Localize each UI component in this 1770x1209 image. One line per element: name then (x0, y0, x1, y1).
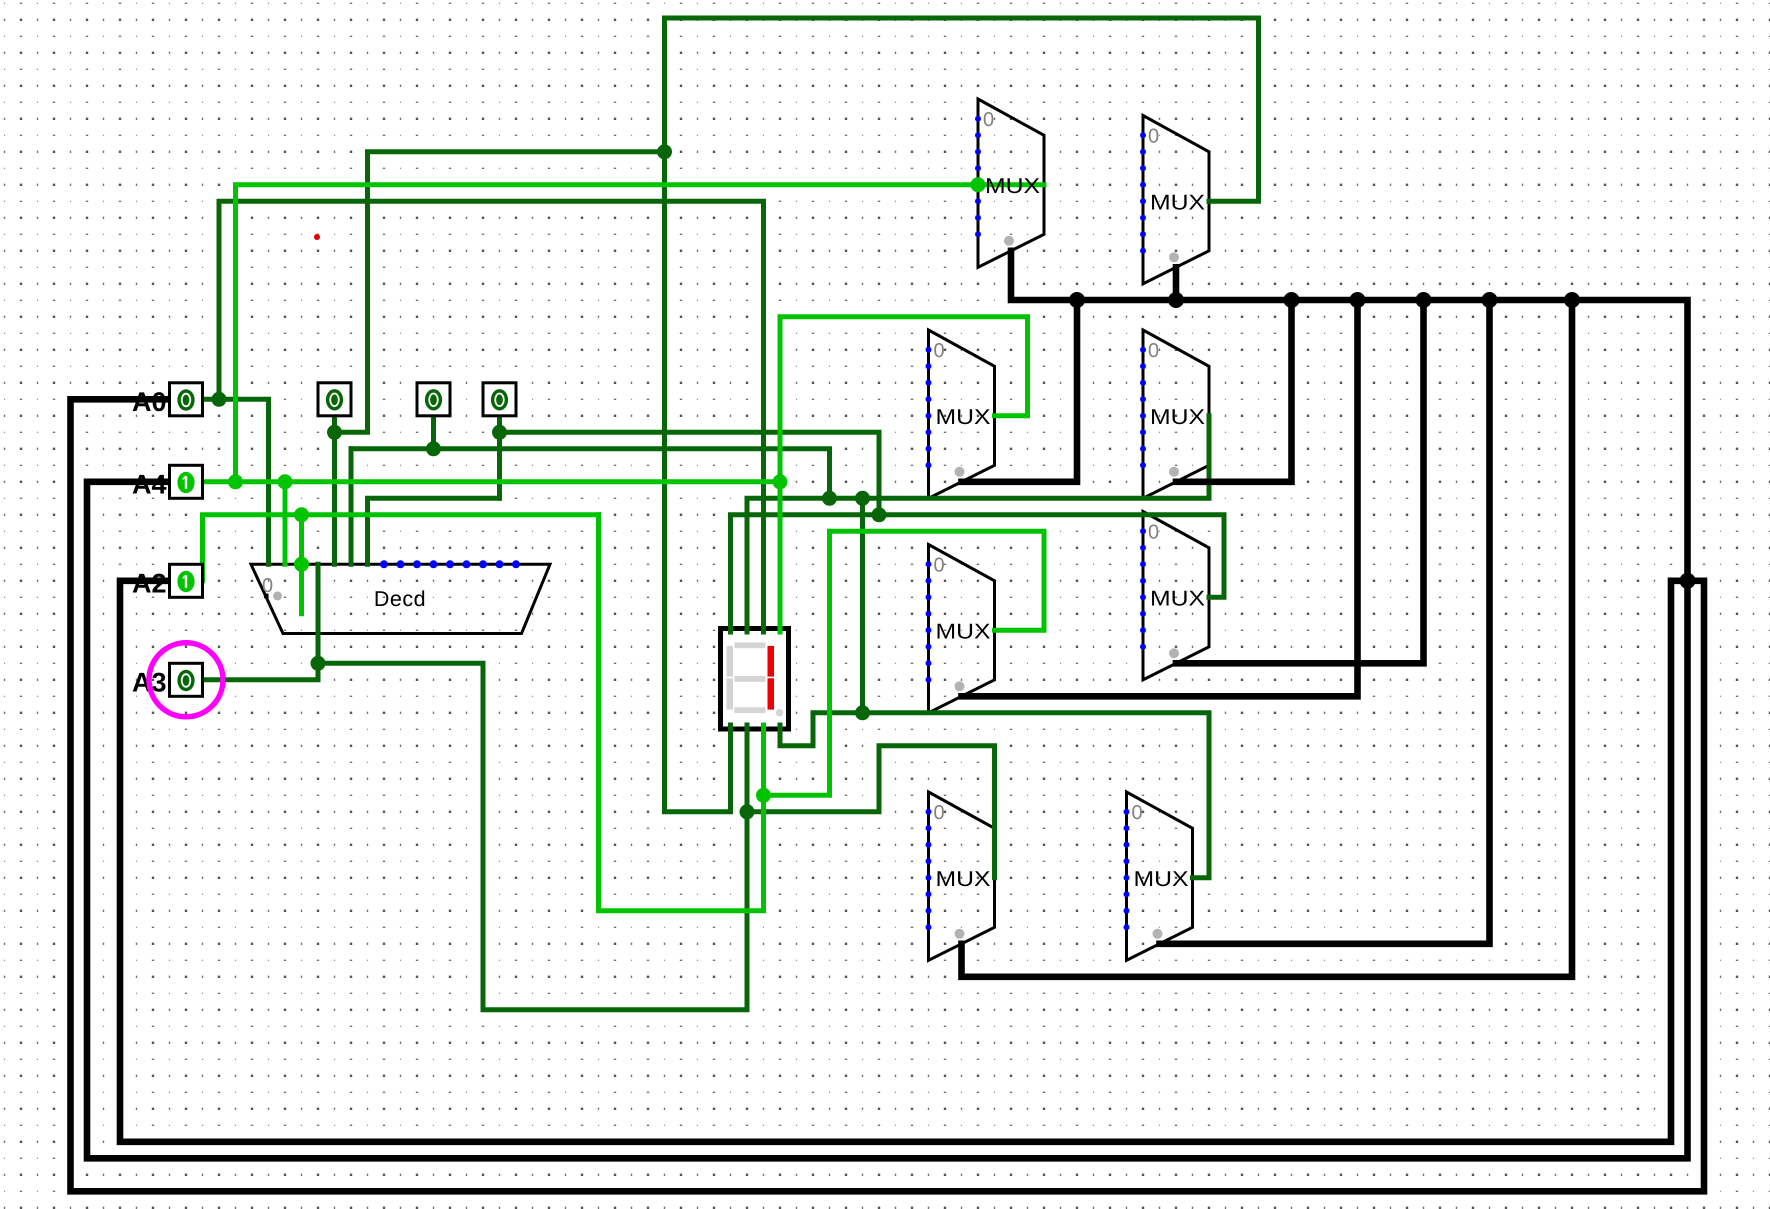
svg-text:0: 0 (1148, 340, 1159, 362)
svg-text:MUX: MUX (1150, 586, 1205, 610)
MUX U2 pins and labels (1140, 125, 1205, 262)
junction bus 1291 (1284, 292, 1300, 308)
junction 7seg bottom pin2 (740, 804, 755, 819)
multiplexer U4 body (1143, 330, 1209, 498)
svg-text:MUX: MUX (936, 405, 991, 429)
wire junction drop 862 (860, 498, 865, 713)
wire const0 box1 down to decoder pin5 (332, 416, 337, 565)
wire A4 down to 7seg top pin4 (778, 482, 783, 632)
constant pin box2 (417, 383, 450, 416)
svg-text:0: 0 (934, 802, 945, 824)
constant pin box3 (483, 383, 516, 416)
wire A0 branch up to 7seg top pin3 (219, 201, 764, 632)
input pin A4 (132, 465, 203, 499)
wire const0 box3 stub down (497, 416, 502, 499)
multiplexer U2 body (1143, 116, 1209, 284)
red artifact dot (314, 234, 320, 240)
magenta highlight circle around A3 (149, 643, 223, 717)
junction MUX U1 input (971, 177, 986, 192)
wire box2 down to decoder pin6 (349, 449, 354, 565)
wire MUX U7 output to junction 747 (747, 746, 995, 878)
wire U7 select (962, 300, 1573, 977)
input pin A2 (132, 564, 203, 598)
wire box2 line right and down to net line (351, 449, 830, 499)
wire U3 select (962, 300, 1078, 482)
wire junction to MUX U5 output (764, 531, 1045, 795)
multiplexer U7 body (929, 792, 995, 960)
wire 7seg bottom pin4 jog to junction (780, 713, 863, 746)
svg-text:0: 0 (1148, 125, 1159, 147)
wire A0 to junction and decoder pin1 (203, 399, 269, 564)
junction box1 (327, 425, 342, 440)
MUX U8 pins and labels (1124, 802, 1189, 939)
wire U6 select (1176, 300, 1424, 663)
decoder pins and labels (262, 560, 520, 611)
wire center vertical down to 7seg bottom pin1 (665, 152, 731, 812)
wire A2 loop to 7seg bottom pin3 (599, 515, 764, 911)
MUX U4 pins and labels (1140, 340, 1205, 477)
svg-text:MUX: MUX (1150, 405, 1205, 429)
MUX U1 pins and labels (975, 109, 1040, 246)
svg-text:0: 0 (262, 575, 273, 597)
junction bus 1423 (1416, 292, 1432, 308)
wire A0 black loop (71, 399, 1705, 1191)
wire U5 select (962, 300, 1358, 696)
svg-text:MUX: MUX (1150, 190, 1205, 214)
wire top loop to MUX U2 output (665, 18, 1259, 201)
junction bus 1572 (1564, 292, 1580, 308)
wire A3 to decoder pin4 (203, 564, 319, 680)
svg-text:0: 0 (934, 340, 945, 362)
svg-text:A0: A0 (132, 387, 167, 417)
wire const0 box2 stub (431, 416, 436, 449)
wire U8 select (1160, 300, 1490, 944)
wire A4 loop to MUX U3 output (780, 317, 1028, 482)
junction box2 (426, 441, 441, 456)
junction bus 1357 (1350, 292, 1366, 308)
junction net line 829 (822, 491, 837, 506)
wire A4 down to decoder pin2 (283, 482, 288, 565)
wire 7seg top pin1 line to MUX U6 output (731, 515, 1225, 632)
svg-text:0: 0 (1132, 802, 1143, 824)
junction net line 862 (855, 491, 870, 506)
svg-text:MUX: MUX (936, 867, 991, 891)
svg-text:A4: A4 (132, 470, 167, 500)
junction net line 879 (872, 507, 887, 522)
wire A2 up and right (203, 515, 599, 581)
svg-text:MUX: MUX (985, 174, 1040, 198)
junction top loop (657, 144, 672, 159)
wire A4 line (203, 479, 781, 484)
MUX U7 pins and labels (926, 802, 991, 939)
7-segment display body (721, 629, 789, 730)
multiplexer U5 body (929, 545, 995, 713)
MUX U3 pins and labels (926, 340, 991, 477)
junction A0 (212, 392, 227, 407)
wire J1 right-up to junction 664 (335, 152, 665, 433)
svg-text:A2: A2 (132, 569, 167, 599)
svg-text:0: 0 (983, 109, 994, 131)
svg-text:0: 0 (1148, 521, 1159, 543)
junction lower 862 (855, 705, 870, 720)
wire decoder pin3 stub (299, 515, 304, 614)
svg-text:MUX: MUX (936, 619, 991, 643)
junction bus 1176 (1168, 292, 1184, 308)
MUX U5 pins and labels (926, 554, 991, 691)
multiplexer U8 body (1127, 792, 1193, 960)
junction A3 (311, 656, 326, 671)
MUX U6 pins and labels (1140, 521, 1205, 658)
junction A4 at 285 (278, 474, 293, 489)
input pin A0 (132, 383, 203, 417)
wire box3 jog to decoder pin7 (368, 498, 500, 564)
wire A4 up to MUX U1 input row (236, 185, 1045, 482)
wire A2 black loop (120, 581, 1688, 1142)
junction box3 (492, 425, 507, 440)
junction bus 1077 (1069, 292, 1085, 308)
wire A4 black loop (87, 482, 1688, 1159)
junction bus 1489 (1482, 292, 1498, 308)
wire box3 line right and down to net line (500, 432, 880, 515)
svg-text:0: 0 (934, 554, 945, 576)
junction 7seg bottom pin3 (756, 788, 771, 803)
wire U2 select stub (1173, 267, 1180, 300)
constant pin box1 (318, 383, 351, 416)
multiplexer U6 body (1143, 512, 1209, 680)
svg-text:Decd: Decd (374, 587, 426, 611)
multiplexer U1 body (978, 99, 1044, 267)
wire select bus with U1 select stub (1011, 251, 1688, 581)
junction decoder pin3 (294, 557, 309, 572)
junction A4 at 780 (773, 474, 788, 489)
wire A3 loop to 7seg bottom pin2 (318, 663, 747, 1010)
svg-text:MUX: MUX (1134, 867, 1189, 891)
junction A2 line (294, 507, 309, 522)
multiplexer U3 body (929, 330, 995, 498)
junction A4 at 235 (228, 474, 243, 489)
junction bus split (1680, 573, 1696, 589)
input pin A3 (132, 663, 203, 697)
wire U4 select (1176, 300, 1292, 482)
wire junction to MUX U8 output (863, 713, 1210, 878)
wire 7seg top pin2 line to MUX U4 output (747, 416, 1209, 632)
decoder Decd body (251, 564, 550, 633)
